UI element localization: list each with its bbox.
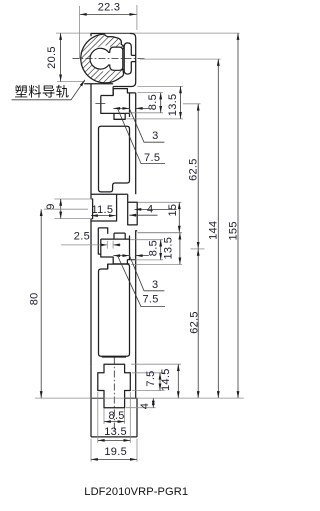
dim 9: extensions	[54, 198, 92, 200]
svg-text:20.5: 20.5	[46, 46, 58, 69]
dim 62.5 top	[197, 104, 199, 249]
dim 4 mid: leader lines	[135, 208, 177, 210]
svg-text:7.5: 7.5	[144, 152, 160, 164]
svg-text:13.5: 13.5	[163, 237, 175, 260]
bottom shared extension line	[35, 397, 244, 399]
svg-text:22.3: 22.3	[98, 2, 121, 14]
mid slot S2 (mirror of S1)	[113, 233, 115, 239]
dim 19.5: extensions	[90, 439, 92, 462]
dim 13.5 top: extensions	[138, 85, 184, 87]
mouth gap upper edge	[122, 47, 125, 49]
dim 13.5 bottom	[98, 439, 131, 441]
dim 14.5	[177, 364, 179, 398]
svg-text:LDF2010VRP-PGR1: LDF2010VRP-PGR1	[84, 486, 188, 498]
dim 20.5 extension bottom	[57, 81, 85, 83]
mid slot left notch	[98, 228, 107, 234]
svg-text:14.5: 14.5	[160, 368, 172, 391]
body left edge to foot (straight)	[90, 366, 92, 437]
plastic guide rail hatched C-ring	[80, 34, 129, 83]
dim 22.3 extension right	[136, 5, 138, 30]
mouth gap lower edge	[122, 68, 125, 70]
svg-text:80: 80	[29, 292, 41, 305]
svg-text:8.5: 8.5	[148, 240, 160, 256]
dim 144	[217, 59, 219, 398]
dim 8.5 top: extensions	[138, 92, 164, 94]
dim 19.5	[91, 458, 137, 460]
dim 7.5 bottom: extensions	[132, 372, 165, 374]
dim 80: extension top	[44, 208, 88, 210]
dim 9	[60, 199, 62, 219]
slot S2 inner width arrows	[113, 255, 129, 257]
svg-text:13.5: 13.5	[167, 94, 179, 117]
svg-text:13.5: 13.5	[104, 426, 127, 438]
dim 2.5	[61, 244, 107, 246]
dim 22.3 extension left	[79, 6, 81, 59]
roller housing bottom-left edge	[84, 83, 113, 85]
dim 14.5: extensions	[131, 363, 181, 365]
svg-text:7.5: 7.5	[145, 370, 157, 386]
inner guide channel (mushroom slot)	[90, 47, 123, 70]
right C-mouth and protrusion	[128, 194, 138, 225]
lower cavity	[99, 264, 130, 356]
top extension line (155 / 20.5 / profile top)	[56, 32, 240, 34]
dim 13.5 top	[180, 86, 182, 119]
upper cavity	[99, 126, 130, 192]
dim 62.5 bottom	[197, 249, 199, 398]
svg-text:8.5: 8.5	[109, 410, 125, 422]
bottom internal cross slot	[98, 364, 131, 408]
roller horizontal centerline	[73, 58, 147, 60]
svg-text:3: 3	[152, 130, 158, 142]
svg-text:4: 4	[139, 403, 151, 409]
svg-text:19.5: 19.5	[104, 446, 127, 458]
dim 13.5 mid: extensions	[138, 232, 183, 234]
bottom centerline	[113, 358, 115, 432]
foot shelves	[91, 397, 104, 399]
dim 20.5	[60, 33, 62, 81]
leader 3 mid	[130, 256, 165, 291]
svg-text:8.5: 8.5	[147, 94, 159, 110]
body top surface and T-slot S1	[101, 89, 136, 96]
svg-text:11.5: 11.5	[92, 204, 114, 216]
roller housing U1 outer aluminium shell	[91, 34, 136, 87]
svg-text:155: 155	[228, 221, 240, 240]
dim 13.5 bottom: extensions	[97, 392, 99, 443]
dim 80	[40, 209, 42, 398]
leader 3 top	[130, 109, 165, 142]
plastic ring outer arc	[81, 34, 121, 83]
dim 22.3	[80, 13, 137, 15]
svg-text:2.5: 2.5	[74, 231, 90, 243]
wire: slit between housing and body	[112, 87, 114, 96]
dim 8.5 mid	[160, 240, 162, 260]
right edge: lower	[135, 260, 137, 399]
left notch (9mm)	[91, 199, 93, 219]
dim 15	[178, 202, 180, 232]
dim 8.5 top	[160, 93, 162, 113]
slot S1 inner width arrows	[113, 107, 129, 109]
dim 4 bottom: extension	[126, 407, 156, 409]
dim 11.5	[91, 215, 116, 217]
svg-text:62.5: 62.5	[188, 158, 200, 181]
svg-text:塑料导轨: 塑料导轨	[15, 84, 70, 99]
dim 4 bottom	[152, 398, 154, 407]
svg-text:62.5: 62.5	[188, 311, 200, 334]
slot S1 centerline tick	[95, 103, 105, 105]
dim 7.5 bottom	[159, 373, 161, 391]
right edge: upper	[135, 93, 137, 194]
T-slot mouth to right edge	[131, 54, 135, 56]
dim 8.5 bottom: extensions	[103, 409, 105, 425]
plastic ring upper lip cap	[105, 35, 124, 49]
leader 7.5 mid	[118, 256, 165, 307]
cavity bottom thick edge	[102, 356, 126, 358]
dim 62.5 top: extensions	[183, 103, 201, 105]
dim 13.5 mid	[179, 233, 181, 265]
dim 8.5 mid: extensions	[130, 239, 163, 241]
body left edge lower	[90, 219, 92, 367]
svg-text:7.5: 7.5	[143, 294, 159, 306]
svg-text:9: 9	[45, 203, 57, 209]
dim 15: extension	[138, 201, 182, 203]
svg-text:144: 144	[208, 221, 220, 240]
svg-text:3: 3	[152, 279, 158, 291]
aluminium T-slot capsule (right of roller)	[124, 43, 131, 74]
left shoulder at y194	[91, 193, 128, 195]
dim 155	[237, 33, 239, 398]
svg-text:4: 4	[147, 203, 153, 215]
foot bottom	[91, 436, 137, 438]
svg-text:15: 15	[167, 204, 179, 217]
dim 8.5 bottom	[104, 421, 125, 423]
dim 144: extension top (roller centerline)	[140, 58, 221, 60]
leader 7.5 top	[118, 109, 165, 164]
plastic ring lower lip hook	[121, 69, 124, 77]
label 塑料导轨 leader	[12, 80, 85, 100]
body left edge upper	[90, 84, 92, 199]
